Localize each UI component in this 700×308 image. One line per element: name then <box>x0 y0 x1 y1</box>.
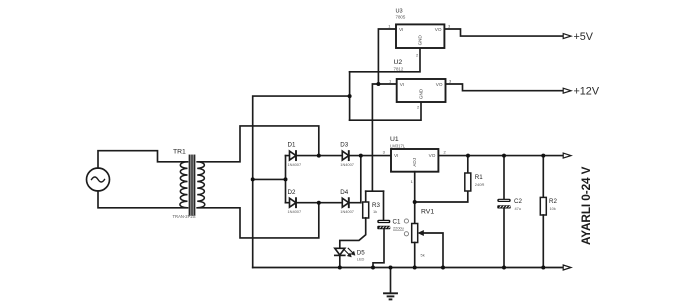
svg-text:AYARLI 0-24 V: AYARLI 0-24 V <box>579 166 593 245</box>
output arrow 0-24V <box>563 153 571 158</box>
wire D1 D2 anode vertical <box>285 156 287 203</box>
svg-text:R1: R1 <box>475 174 483 181</box>
resistor R3 <box>365 191 367 202</box>
svg-text:D2: D2 <box>288 189 296 196</box>
svg-text:C2: C2 <box>514 198 522 205</box>
svg-text:7805: 7805 <box>396 15 406 20</box>
svg-text:TRAN-2P2S: TRAN-2P2S <box>173 214 196 219</box>
wire source top to primary <box>98 151 188 168</box>
junction AC2 node <box>317 201 321 205</box>
svg-text:U2: U2 <box>394 59 403 66</box>
diode D4 <box>342 198 349 207</box>
junction ground stem <box>389 266 393 270</box>
junction wiper to rail <box>441 266 445 270</box>
regulator U3 7805 <box>396 24 444 48</box>
svg-text:R2: R2 <box>549 198 557 205</box>
wire U1 adj <box>415 172 468 202</box>
svg-text:VO: VO <box>436 82 443 87</box>
svg-text:D3: D3 <box>340 142 348 149</box>
LED D5 <box>335 248 355 267</box>
junction C2 top <box>502 154 506 158</box>
wire bridge row1 (D1 D3 line) <box>286 155 392 157</box>
svg-text:ADJ: ADJ <box>412 158 417 167</box>
output arrow bottom rail <box>563 265 571 270</box>
svg-text:+5V: +5V <box>574 31 594 43</box>
resistor R1 <box>467 156 469 173</box>
wire plus vertical D3 D4 cathodes <box>360 156 362 203</box>
capacitor C2 plates <box>497 199 511 209</box>
output arrow +5V <box>563 34 571 39</box>
wire 7805 gnd <box>350 48 420 72</box>
wire secondary bottom to bridge AC2 <box>197 203 319 238</box>
wire anode tap to minus rail <box>253 178 286 180</box>
svg-text:LED: LED <box>357 257 365 262</box>
junction minus rail tap <box>251 177 255 181</box>
junction plus node <box>359 154 363 158</box>
junction RV1 to rail <box>413 266 417 270</box>
wire gnd link vertical <box>349 72 351 120</box>
svg-text:VI: VI <box>399 27 403 32</box>
svg-text:1k: 1k <box>373 209 377 214</box>
wire plus feed vertical <box>372 84 396 191</box>
svg-text:1N4007: 1N4007 <box>340 162 354 167</box>
svg-text:D4: D4 <box>340 189 348 196</box>
wire minus vertical rail <box>253 96 350 267</box>
wire source bottom to primary <box>98 191 188 208</box>
wire R3 C1 header <box>366 190 384 192</box>
resistor R2 <box>542 156 544 198</box>
potentiometer RV1 <box>414 202 416 224</box>
svg-text:D1: D1 <box>288 142 296 149</box>
junction R2 to rail <box>541 266 545 270</box>
svg-text:VI: VI <box>394 153 398 158</box>
svg-text:VO: VO <box>435 27 442 32</box>
svg-text:1N4007: 1N4007 <box>288 162 302 167</box>
junction ADJ node <box>413 200 417 204</box>
wire 7805 output to +5V <box>444 29 562 36</box>
capacitor C1 <box>383 191 385 220</box>
svg-text:C1: C1 <box>393 219 401 226</box>
junction R1 top <box>466 154 470 158</box>
svg-text:LM317L: LM317L <box>390 143 406 148</box>
RV1 terminal circles <box>404 219 408 236</box>
svg-text:2200u: 2200u <box>393 226 404 231</box>
svg-text:1N4007: 1N4007 <box>288 209 302 214</box>
AC source V1 <box>87 168 110 191</box>
junction U2 input <box>376 82 380 86</box>
svg-text:5k: 5k <box>421 253 425 258</box>
block pin texts <box>383 24 452 184</box>
junction C1 to rail <box>371 266 375 270</box>
svg-text:GND: GND <box>418 35 423 46</box>
svg-text:U1: U1 <box>390 136 399 143</box>
svg-text:R3: R3 <box>372 202 380 209</box>
svg-text:D5: D5 <box>357 250 365 257</box>
wiper of RV1 <box>422 233 443 268</box>
diode D1 <box>290 151 297 160</box>
diode D2 <box>290 198 297 207</box>
svg-text:VO: VO <box>429 153 436 158</box>
svg-text:10k: 10k <box>550 206 556 211</box>
wire secondary top to bridge AC1 <box>197 126 319 162</box>
wire 7805 input <box>378 29 396 84</box>
svg-text:240R: 240R <box>475 182 485 187</box>
junction LED to rail <box>338 266 342 270</box>
junction D1 D2 anodes <box>284 177 288 181</box>
wire R3 to LED <box>340 218 366 248</box>
junction C2 to rail <box>502 266 506 270</box>
svg-text:TR1: TR1 <box>173 149 186 156</box>
wire U2 gnd <box>350 102 421 120</box>
wire U1 output line <box>438 155 562 157</box>
wire U2 output to +12V <box>446 84 563 91</box>
svg-text:47u: 47u <box>515 206 522 211</box>
svg-text:VI: VI <box>400 82 404 87</box>
svg-text:1N4007: 1N4007 <box>340 209 354 214</box>
junction R2 top <box>541 154 545 158</box>
ground <box>384 268 397 300</box>
capacitor C2 <box>503 156 505 199</box>
regulator U2 7812 <box>397 79 446 102</box>
output arrow +12V <box>563 88 571 93</box>
svg-text:7812: 7812 <box>394 67 404 72</box>
diode D3 <box>342 151 349 160</box>
transformer TR1 primary winding <box>180 162 188 208</box>
svg-text:+12V: +12V <box>574 86 600 98</box>
svg-text:GND: GND <box>419 88 424 99</box>
capacitor C1 plates <box>377 220 390 230</box>
wire bottom rail <box>253 267 563 269</box>
transformer TR1 secondary winding <box>197 162 205 208</box>
transformer TR1 core <box>189 155 194 215</box>
junction AC1 node <box>317 154 321 158</box>
wire bridge row2 (D2 D4 line) <box>286 202 361 204</box>
op-amp U1 LM317L block <box>391 149 438 172</box>
svg-text:RV1: RV1 <box>421 209 434 216</box>
junction gnd link <box>348 94 352 98</box>
